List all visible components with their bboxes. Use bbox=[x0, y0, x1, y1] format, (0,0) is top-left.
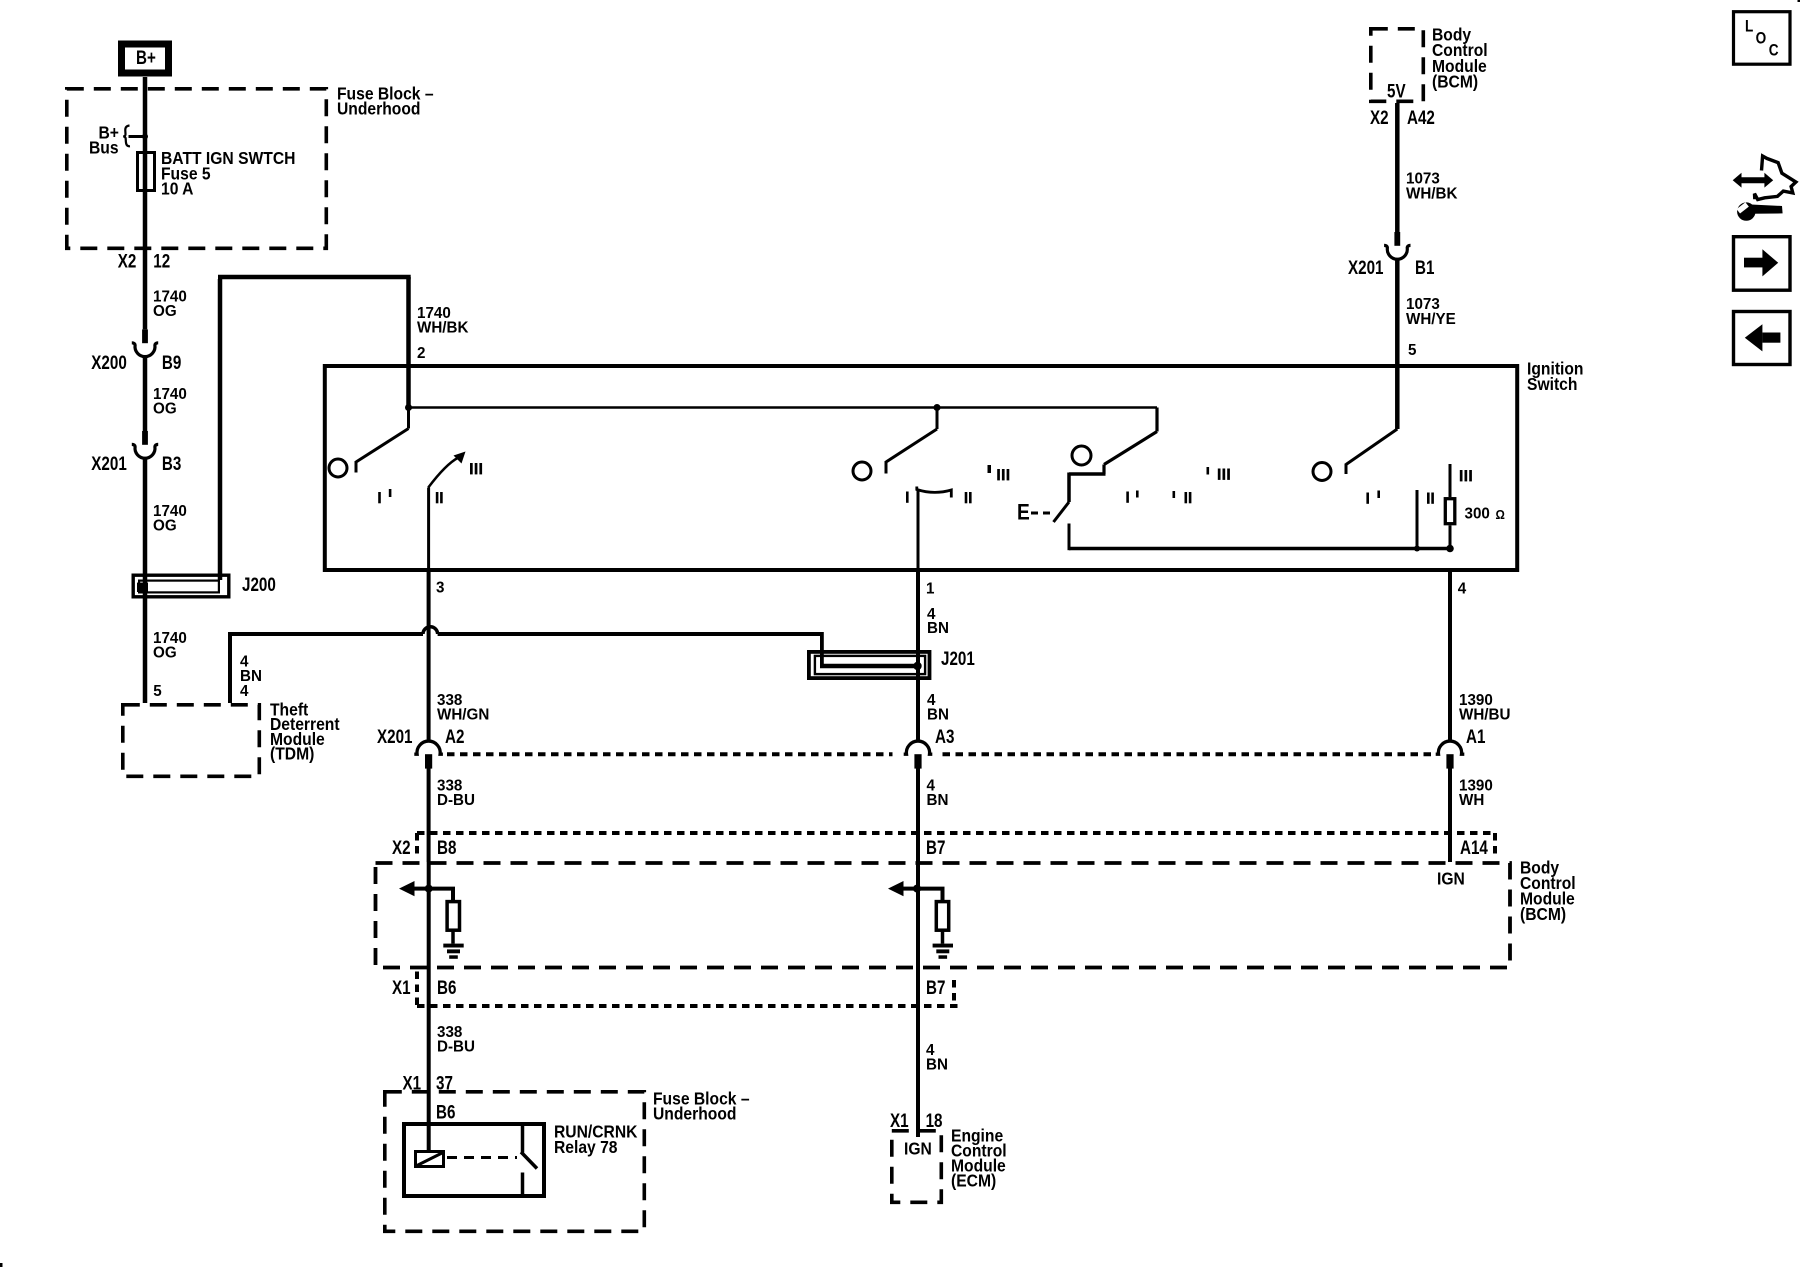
position mark I switch 4 bbox=[1366, 493, 1369, 504]
splice J200 bbox=[133, 575, 229, 597]
svg-text:Ω: Ω bbox=[1496, 507, 1505, 522]
svg-text:X200: X200 bbox=[91, 351, 126, 373]
wire 1073 WH/BK BCM to X201 bbox=[1395, 103, 1400, 232]
junction switch 1 pivot bbox=[405, 404, 412, 411]
svg-text:B6: B6 bbox=[437, 976, 456, 998]
svg-text:Switch: Switch bbox=[1527, 374, 1577, 394]
svg-text:10 A: 10 A bbox=[161, 178, 193, 198]
wire circuit 4 BN pin1 to J201 bbox=[916, 572, 920, 742]
svg-text:A1: A1 bbox=[1466, 725, 1486, 747]
position mark I switch 1 bbox=[378, 492, 381, 503]
wire circuit 4 BN BCM to ECM bbox=[916, 968, 920, 1138]
svg-text:5: 5 bbox=[153, 683, 162, 700]
svg-text:OG: OG bbox=[153, 644, 177, 661]
svg-text:B7: B7 bbox=[926, 976, 945, 998]
wire circuit 338 D-BU to BCM X2 B8 bbox=[427, 769, 431, 863]
svg-text:(BCM): (BCM) bbox=[1520, 904, 1566, 924]
svg-text:X201: X201 bbox=[1348, 256, 1384, 278]
svg-text:12: 12 bbox=[153, 250, 170, 272]
svg-text:IGN: IGN bbox=[904, 1138, 932, 1158]
svg-text:OG: OG bbox=[153, 400, 177, 417]
svg-text:X201: X201 bbox=[377, 725, 413, 747]
wire 1740 OG segment X200-X201 bbox=[143, 358, 148, 432]
connector row X201 dashed line bbox=[447, 752, 893, 756]
switch wafer 2 bbox=[934, 404, 941, 411]
contact bridge switch 2 bbox=[917, 487, 952, 498]
svg-text:J201: J201 bbox=[941, 647, 975, 669]
position mark II switch 2 bbox=[965, 492, 968, 503]
switch assembly: ignition switch box bbox=[325, 366, 1517, 570]
page edge marks bbox=[1798, 0, 1800, 2]
svg-text:B9: B9 bbox=[162, 351, 181, 373]
wire 1073 WH/YE to ignition switch pin 5 bbox=[1395, 260, 1400, 429]
svg-text:BN: BN bbox=[926, 1056, 948, 1073]
wire circuit 1390 WH/BU pin4 to A1 bbox=[1448, 572, 1452, 742]
wire 1390 WH A1 to BCM A14 bbox=[1448, 769, 1452, 863]
wire 4 BN branch TDM pin 4 bbox=[228, 634, 232, 703]
legend LOC box bbox=[1734, 12, 1791, 64]
svg-text:X2: X2 bbox=[392, 836, 411, 858]
position marks I switch 3 bbox=[1126, 492, 1129, 503]
fuse F5 BATT IGN SWTCH 10A bbox=[138, 153, 155, 191]
position mark III switch 4 bbox=[1460, 470, 1463, 481]
connector X201 B1 bbox=[1394, 232, 1400, 246]
svg-text:A42: A42 bbox=[1407, 106, 1435, 128]
svg-text:1: 1 bbox=[926, 580, 935, 597]
svg-text:BN: BN bbox=[927, 620, 949, 637]
connector X201 A2 bbox=[414, 741, 443, 754]
connector X200 B9 bbox=[142, 329, 148, 343]
svg-text:A3: A3 bbox=[935, 725, 954, 747]
ground internal B7 bbox=[933, 944, 953, 948]
svg-text:5: 5 bbox=[1408, 342, 1417, 359]
svg-text:OG: OG bbox=[153, 303, 177, 320]
svg-text:C: C bbox=[1769, 41, 1779, 60]
splice J201 bbox=[809, 652, 930, 678]
position II contact line switch 4 bbox=[1416, 490, 1419, 549]
connector X201 B3 bbox=[142, 431, 148, 445]
wire B8 internal bbox=[427, 862, 431, 968]
resistor 300 ohm bypass bbox=[1449, 464, 1452, 497]
svg-text:X201: X201 bbox=[91, 452, 127, 474]
signal arrow B7 internal bbox=[888, 881, 904, 896]
module BCM body control module box bbox=[376, 863, 1511, 968]
signal arrow B8 internal bbox=[399, 881, 415, 896]
svg-text:5V: 5V bbox=[1387, 80, 1406, 102]
svg-text:X2: X2 bbox=[1370, 106, 1389, 128]
connector X201 A1 bbox=[1436, 741, 1465, 754]
svg-text:(BCM): (BCM) bbox=[1432, 72, 1478, 92]
relay actuation dashed link bbox=[447, 1156, 517, 1159]
svg-text:2: 2 bbox=[417, 345, 426, 362]
icon back arrow box bbox=[1734, 312, 1791, 365]
svg-text:A2: A2 bbox=[445, 725, 464, 747]
resistor pull-down B7 bbox=[936, 902, 948, 931]
svg-text:B7: B7 bbox=[926, 836, 945, 858]
svg-text:D-BU: D-BU bbox=[437, 792, 475, 809]
svg-text:18: 18 bbox=[926, 1109, 943, 1131]
wire branch from TDM bus into J201 bbox=[820, 632, 824, 666]
icon wrench bbox=[1737, 202, 1783, 221]
ground internal B8 bbox=[443, 944, 463, 948]
svg-text:E: E bbox=[1017, 500, 1030, 525]
svg-text:A14: A14 bbox=[1460, 836, 1488, 858]
module ECM engine control module box bbox=[892, 1131, 942, 1203]
icon double arrow with pointer scribble bbox=[1739, 177, 1767, 183]
fuse block underhood box (top) bbox=[67, 89, 327, 249]
svg-text:BN: BN bbox=[927, 792, 949, 809]
wire 1740 OG segment X201-J200-TDM bbox=[143, 459, 148, 703]
svg-text:WH/BK: WH/BK bbox=[1406, 185, 1458, 202]
svg-text:B8: B8 bbox=[437, 836, 457, 858]
wire 4 BN A3 to BCM X2 B7 bbox=[916, 769, 920, 863]
junction II line to bus bbox=[1414, 546, 1420, 552]
svg-text:WH: WH bbox=[1459, 792, 1484, 809]
relay RUN/CRNK Relay 78 box bbox=[404, 1124, 544, 1196]
resistor pull-down B8 bbox=[447, 902, 459, 931]
svg-text:Bus: Bus bbox=[89, 137, 119, 157]
svg-text:X1: X1 bbox=[890, 1109, 909, 1131]
position marks II switch 3 bbox=[1173, 491, 1176, 498]
junction B+ bus bbox=[142, 134, 148, 140]
fuse block underhood box (bottom) bbox=[385, 1092, 645, 1232]
svg-text:BN: BN bbox=[927, 706, 949, 723]
wire internal bottom bus bbox=[1069, 547, 1450, 551]
svg-text:WH/GN: WH/GN bbox=[437, 706, 489, 723]
contact E lower bbox=[1068, 524, 1071, 551]
module BCM body control module (top) with 5V output bbox=[1371, 29, 1424, 102]
svg-text:IGN: IGN bbox=[1437, 868, 1465, 888]
svg-text:X2: X2 bbox=[118, 250, 137, 272]
connector row X1 dotted line at BCM bbox=[417, 1004, 958, 1008]
wire pin 3 inside box bbox=[427, 488, 430, 573]
switch wafer 3 (accessory E contact) bbox=[1155, 408, 1158, 432]
svg-text:(ECM): (ECM) bbox=[951, 1170, 996, 1190]
svg-text:Underhood: Underhood bbox=[337, 98, 420, 118]
svg-text:D-BU: D-BU bbox=[437, 1038, 475, 1055]
svg-text:300: 300 bbox=[1465, 505, 1491, 522]
position mark II switch 1 bbox=[436, 492, 439, 503]
wire circuit 338 D-BU BCM to run/crnk relay bbox=[427, 968, 431, 1151]
svg-text:WH/YE: WH/YE bbox=[1406, 311, 1456, 328]
switch wafer 4 (ignition main from pin 5) bbox=[1346, 429, 1397, 465]
svg-text:B6: B6 bbox=[436, 1101, 455, 1123]
svg-text:J200: J200 bbox=[242, 573, 276, 595]
svg-text:X1: X1 bbox=[392, 976, 411, 998]
svg-text:4: 4 bbox=[1458, 580, 1467, 597]
wire pin 1 inside box bbox=[917, 489, 920, 572]
svg-text:WH/BK: WH/BK bbox=[417, 319, 469, 336]
svg-text:WH/BU: WH/BU bbox=[1459, 706, 1510, 723]
svg-text:OG: OG bbox=[153, 517, 177, 534]
icon forward arrow box bbox=[1734, 237, 1791, 291]
switch blade E (open) bbox=[1054, 502, 1070, 522]
wire B+ feed down to fuse bbox=[143, 77, 148, 329]
wire circuit 338 WH/GN pin3 to X201 A2 bbox=[427, 572, 431, 742]
svg-text:B3: B3 bbox=[162, 452, 181, 474]
wire B+ Bus tap bbox=[129, 135, 146, 138]
relay switch contacts bbox=[521, 1124, 525, 1153]
svg-text:B1: B1 bbox=[1415, 256, 1435, 278]
rotation arrow switch 1 bbox=[428, 458, 458, 488]
wire branch to ignition switch pin 2 bbox=[218, 279, 223, 580]
position mark III switch 3 bbox=[1207, 467, 1210, 475]
junction resistor to bus pin 4 bbox=[1446, 545, 1454, 553]
relay coil bbox=[416, 1152, 444, 1167]
module TDM theft deterrent box bbox=[123, 705, 259, 777]
svg-text:3: 3 bbox=[436, 579, 445, 596]
wire B7 internal bbox=[916, 862, 920, 968]
svg-text:Relay 78: Relay 78 bbox=[554, 1137, 618, 1157]
junction J201 splice bbox=[913, 662, 921, 670]
svg-text:L: L bbox=[1745, 17, 1753, 36]
power symbol B+ battery positive terminal bbox=[122, 44, 169, 73]
svg-text:O: O bbox=[1756, 29, 1767, 48]
wire hop over circuit 338 (no connection) bbox=[423, 627, 438, 634]
wire internal bus from pin 2 bbox=[409, 406, 1158, 409]
svg-text:Underhood: Underhood bbox=[653, 1103, 736, 1123]
svg-text:4: 4 bbox=[240, 683, 249, 700]
connector row X2 dotted line at BCM bbox=[417, 831, 1495, 835]
svg-text:B+: B+ bbox=[136, 46, 156, 68]
switch wafer 1 (feed contact) bbox=[407, 408, 410, 429]
position mark III switch 1 bbox=[470, 463, 473, 474]
position mark I switch 2 bbox=[906, 492, 909, 503]
connector X201 A3 bbox=[904, 741, 933, 754]
position mark III switch 2 bbox=[988, 465, 992, 473]
svg-text:(TDM): (TDM) bbox=[270, 744, 314, 764]
